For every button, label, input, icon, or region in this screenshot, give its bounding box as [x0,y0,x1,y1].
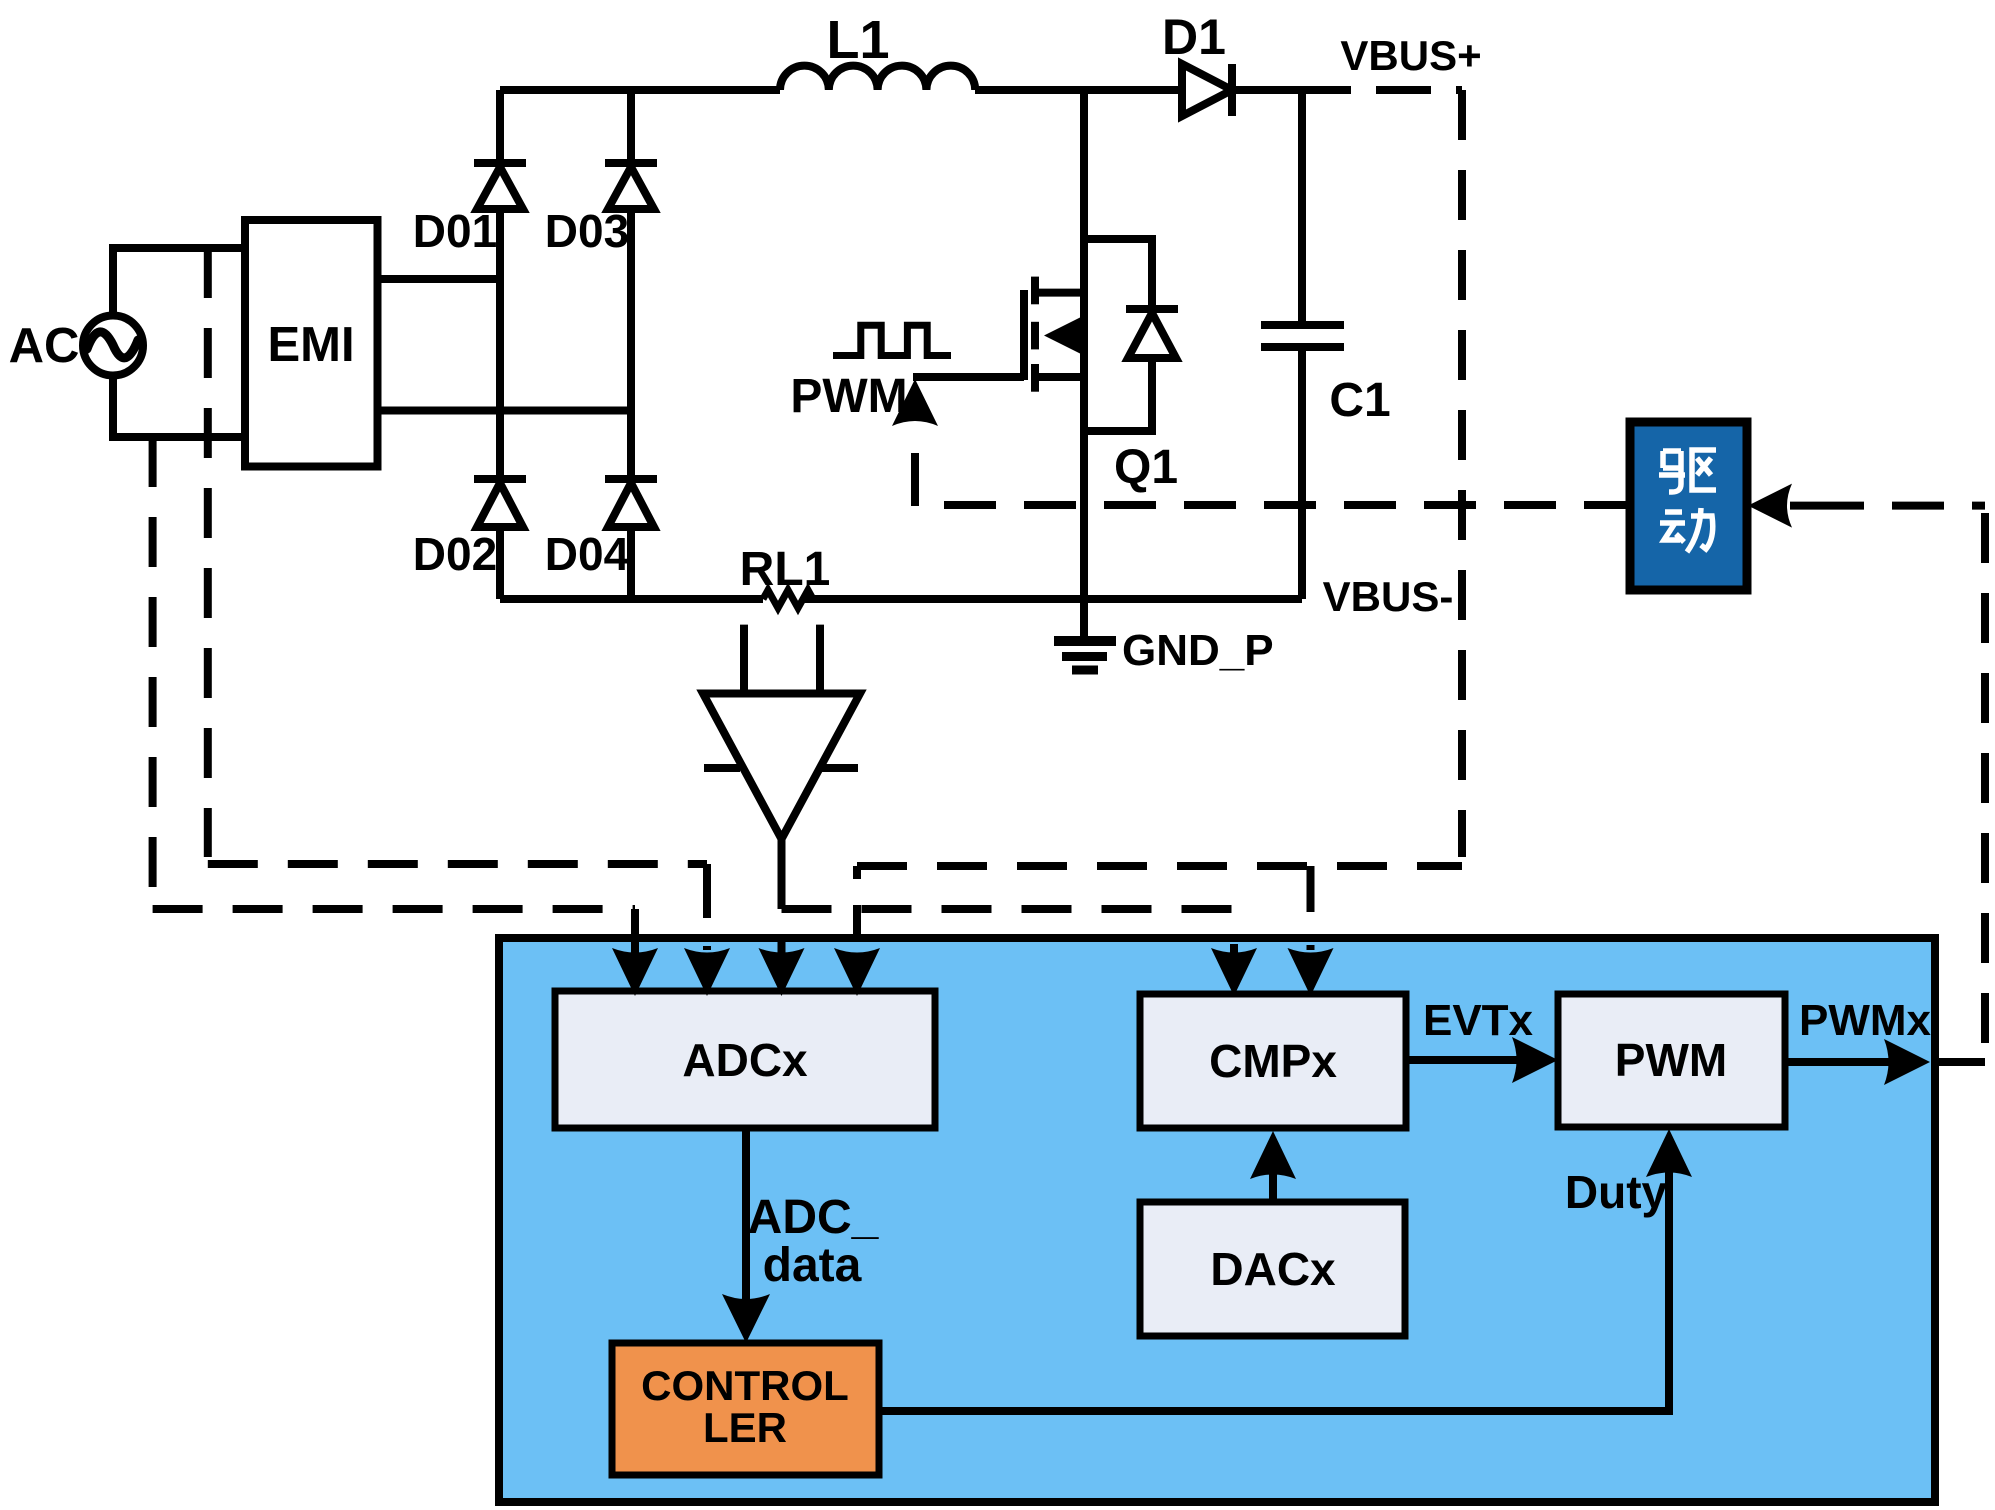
ADC input arrow 1 [612,909,658,996]
current sense op-amp U1 [703,625,860,909]
dashed sense line AC-L (left vertical 1) [204,248,212,857]
dashed row 2 left segment [153,905,635,913]
EMI filter block [245,220,378,467]
ADC input arrow 4 [834,866,880,996]
svg-text:L1: L1 [826,10,889,70]
DAC to CMP arrow [1250,1131,1296,1202]
driver text dong [1660,508,1713,552]
dashed row 1 right segment [857,862,1462,870]
wire bridge left vertical [496,90,504,599]
MCU block (blue) [499,938,1935,1502]
svg-text:CONTROL: CONTROL [641,1362,849,1409]
wire bottom bus right [803,595,1302,603]
wire PWMx stub [1930,1058,1985,1066]
dashed VBUS+ sense vertical [1458,90,1466,857]
PWM pulse waveform [833,325,951,355]
svg-text:D01: D01 [413,205,497,257]
inductor L1 [780,66,975,90]
dashed feedback right vertical [1981,513,1989,1062]
svg-text:RL1: RL1 [740,543,831,596]
svg-text:EMI: EMI [267,318,354,372]
svg-text:D02: D02 [413,528,497,580]
driver input arrow [1748,484,1812,528]
svg-text:AC: AC [9,319,80,373]
CMP input arrow 2 [1288,866,1334,996]
svg-text:VBUS-: VBUS- [1323,573,1454,620]
diode D1 [1182,64,1232,116]
wire EMI to bridge bottom [378,407,632,415]
svg-text:PWMx: PWMx [1799,996,1932,1045]
resistor RL1 (shunt zigzag) [763,590,813,608]
ground GND_P [1054,599,1116,670]
svg-text:ADC_: ADC_ [748,1191,880,1244]
capacitor C1 [1261,90,1344,599]
CMP input arrow 1 [1211,944,1257,996]
wire AC top [113,248,245,316]
svg-text:LER: LER [703,1404,787,1451]
PWM gate arrow [892,379,938,506]
svg-text:DACx: DACx [1210,1243,1336,1295]
CONTROLLER block [612,1343,879,1475]
svg-text:PWM: PWM [1615,1034,1727,1086]
driver text qu [1659,450,1716,492]
dashed VBUS+ sense top [1376,86,1462,94]
transistor Q1 drain-source vertical [1080,90,1088,599]
dashed sense line AC-N (left vertical 2) [149,437,157,903]
wire top bus [500,86,780,94]
ADC_data arrow [722,1128,770,1343]
svg-text:EVTx: EVTx [1423,996,1534,1045]
svg-text:PWM: PWM [790,370,907,423]
Duty line from controller [879,1172,1669,1411]
ADC_data label [748,1191,880,1292]
svg-text:VBUS+: VBUS+ [1340,32,1481,79]
wire AC bottom [113,376,245,438]
PWMx arrow [1785,1039,1930,1085]
diode D04 [605,479,657,527]
svg-text:CMPx: CMPx [1209,1035,1337,1087]
dashed gate drive row [944,501,1630,509]
dashed row 2 right segment (op-amp to CMP) [782,905,1235,913]
CONTROLLER label [641,1362,849,1451]
ADC input arrow 2 [684,864,730,996]
EVTx arrow [1406,1037,1558,1083]
body diode of Q1 [1084,239,1178,431]
diode D03 [605,163,657,209]
wire L1 to D1 [975,86,1182,94]
AC source [83,316,143,376]
dashed driver right row [1812,502,1985,510]
diode D01 [474,163,526,209]
driver block (drive) [1630,422,1747,590]
svg-text:D03: D03 [545,205,629,257]
svg-text:C1: C1 [1329,374,1390,427]
svg-text:data: data [763,1239,862,1292]
wire EMI to bridge top [378,275,501,283]
DACx block [1140,1202,1405,1336]
transistor Q1 mosfet symbol [913,277,1084,392]
svg-text:D1: D1 [1162,9,1226,65]
svg-text:GND_P: GND_P [1122,626,1274,675]
Duty arrow head [1646,1129,1692,1177]
dashed row 1 left segment [208,860,707,868]
svg-text:D04: D04 [545,528,630,580]
svg-text:ADCx: ADCx [682,1034,808,1086]
ADCx block [555,991,935,1128]
wire D1 to VBUS+ [1232,86,1351,94]
ADC input arrow 3 [759,942,805,996]
wire bottom bus left [500,595,763,603]
svg-text:Q1: Q1 [1114,441,1178,494]
CMPx block [1140,994,1406,1128]
diode D02 [474,479,526,527]
svg-text:Duty: Duty [1565,1166,1668,1218]
wire bridge right vertical [627,90,635,599]
PWM block [1558,994,1785,1127]
